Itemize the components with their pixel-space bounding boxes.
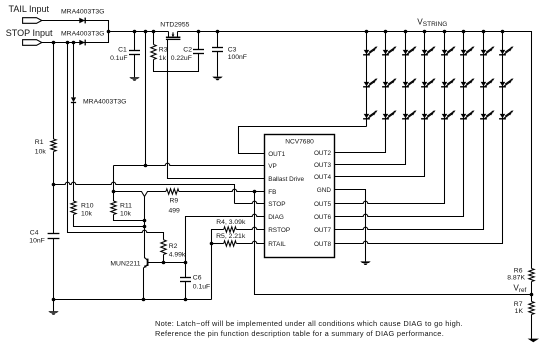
diode D3 MRA4003T3G vertical on R10 branch [71,97,76,102]
wire LED column 6 to OUT6 pin [335,32,464,217]
wire LED column 4 to OUT4 pin [335,32,425,177]
resistor R7 1K [529,302,534,315]
svg-text:4.99k: 4.99k [169,251,186,258]
resistor R2 4.99k [161,240,166,255]
wire R11 bottom to collector node [114,215,145,221]
svg-text:0.1uF: 0.1uF [193,284,210,291]
svg-text:STOP Input: STOP Input [6,28,53,38]
svg-text:0.22uF: 0.22uF [171,55,192,62]
wire C1 to ground [134,55,136,78]
svg-text:MRA4003T3G: MRA4003T3G [83,98,126,105]
wire rail tap down to VP pin line [145,32,147,166]
svg-text:NCV7680: NCV7680 [285,139,314,146]
LED column 3 row 1 [402,46,416,54]
wire VP pin line from R11 top corner [114,163,265,165]
svg-text:R9: R9 [170,197,179,204]
ground symbol at IC GND pin [360,261,370,265]
resistor R11 10k [111,201,116,215]
svg-text:MUN2211: MUN2211 [110,261,140,268]
ground symbol at bottom-left rail [48,311,58,315]
capacitor C3 100nF [212,48,223,52]
LED column 2 row 3 [382,110,396,118]
wire R4/R5 node down to ground rail [211,244,213,300]
wire STOP branch to R2 top [68,43,164,240]
LED column 6 row 3 [460,110,474,118]
wire R11 vertical below VP corner [113,166,115,202]
wire R7 bottom to down arrow [531,315,533,339]
LED column 6 row 1 [460,46,474,54]
svg-text:VP: VP [268,163,277,170]
svg-text:OUT2: OUT2 [314,150,331,157]
wire LED column 3 to OUT3 pin [335,32,406,165]
wire R3 bottom / C2 bottom / gate junction line [154,54,199,72]
ground symbol at C3 [212,77,222,81]
svg-text:100nF: 100nF [228,54,247,61]
svg-text:OUT6: OUT6 [314,214,331,221]
wire collector node vertical from V-junction to Q1 [144,197,146,259]
wire RTAIL right lead to pin [236,241,264,243]
transistor Q1 MUN2211 NPN [144,258,148,300]
LED column 4 row 3 [421,110,435,118]
wire ground stub below rail left end [53,300,55,312]
svg-text:Ballast Drive: Ballast Drive [268,176,304,183]
wire C3 branch from rail [217,32,219,48]
wire LED column 1 [366,32,368,127]
wire STOP branch down through R1 to C4 [53,43,55,140]
LED column 7 row 3 [480,110,494,118]
wire ground rail [54,299,212,301]
LED column 5 row 1 [441,46,455,54]
capacitor C1 0.1uF [129,51,140,55]
svg-text:10k: 10k [120,211,132,218]
wire RSTOP right lead to pin [236,227,264,229]
wire R2 bottom to base node [163,255,165,263]
resistor R10 10k [71,201,76,215]
svg-text:R1: R1 [35,139,44,146]
svg-text:MRA4003T3G: MRA4003T3G [61,30,104,37]
wire R11 tap to FB summing V-junction [114,192,166,197]
svg-text:STOP: STOP [268,201,285,208]
wire LED column 8 to OUT8 pin [335,32,503,244]
svg-text:TAIL Input: TAIL Input [9,4,50,14]
svg-text:R2: R2 [169,243,178,250]
wire RTAIL left lead [212,243,224,245]
LED column 6 row 2 [460,78,474,86]
LED column 1 row 1 [363,46,377,54]
resistor R5 2.21k [224,241,237,246]
wire C4 bottom to ground rail [53,239,55,300]
resistor R1 10k [51,139,56,152]
wire Q1 base line to R2 and C6 [148,262,185,264]
svg-text:OUT5: OUT5 [314,201,331,208]
svg-text:OUT3: OUT3 [314,162,331,169]
svg-text:R7: R7 [514,301,523,308]
wire STOP branch through diode D3 to R10 [73,43,75,98]
svg-text:C3: C3 [228,47,237,54]
capacitor C4 10nF [48,234,60,239]
wire STOP sense rail from R1/C4 tap to STOP pin [54,182,235,203]
svg-text:C4: C4 [30,230,39,237]
LED column 1 row 3 [363,110,377,118]
wire STOP pin lead [235,201,265,203]
diode D2 MRA4003T3G on STOP line [79,40,85,45]
resistor R4 3.09k [224,227,237,232]
svg-text:Reference the pin function des: Reference the pin function description t… [155,329,444,338]
wire C3 to ground [217,52,219,77]
LED column 8 row 1 [499,46,513,54]
svg-text:R10: R10 [81,202,94,209]
wire C1 branch from rail [134,32,136,51]
svg-text:10k: 10k [81,211,93,218]
LED column 3 row 3 [402,110,416,118]
wire Vref node to R7 [531,295,533,302]
svg-text:10nF: 10nF [29,238,45,245]
wire R3 branch from rail [153,32,155,45]
LED column 7 row 1 [480,46,494,54]
LED column 8 row 3 [499,110,513,118]
wire R9 right lead to FB pin [179,189,265,191]
svg-text:FB: FB [268,189,276,196]
svg-text:0.1uF: 0.1uF [110,55,127,62]
wire main VP rail from diode-OR to Q NTD2955 [109,31,169,33]
transistor Q2 NTD2955 P-MOSFET [166,32,181,40]
svg-text:R5, 2.21k: R5, 2.21k [216,233,246,240]
svg-text:RTAIL: RTAIL [268,241,286,248]
svg-text:MRA4003T3G: MRA4003T3G [61,9,104,16]
LED column 5 row 3 [441,110,455,118]
svg-text:C6: C6 [193,275,202,282]
wire R10 bottom to collector node [74,215,145,227]
svg-text:C1: C1 [118,46,127,53]
input tag TAIL [23,18,42,24]
wire C2 branch from rail [198,32,200,50]
svg-text:Note: Latch−off will be implem: Note: Latch−off will be implemented unde… [155,319,463,328]
svg-text:NTD2955: NTD2955 [160,22,189,29]
LED column 3 row 2 [402,78,416,86]
LED column 5 row 2 [441,78,455,86]
svg-text:1K: 1K [515,308,524,315]
LED column 4 row 2 [421,78,435,86]
wire main VP rail from Q NTD2955 to right edge down to R6 [178,32,532,269]
svg-text:DIAG: DIAG [268,214,284,221]
svg-text:OUT8: OUT8 [314,241,331,248]
LED column 2 row 1 [382,46,396,54]
svg-text:OUT7: OUT7 [314,227,331,234]
capacitor C6 0.1uF [180,278,191,282]
wire STOP input line [42,32,109,43]
resistor R6 8.87K [529,269,534,282]
diode D1 MRA4003T3G on TAIL line [79,18,85,23]
input tag STOP [23,40,42,46]
wire TAIL input line [42,21,109,32]
LED column 8 row 2 [499,78,513,86]
wire FB node down and across to Vref node [255,192,532,295]
svg-text:499: 499 [169,207,181,214]
resistor R3 1k [151,45,156,60]
wire LED column 7 to OUT7 pin [335,32,484,230]
svg-text:C2: C2 [183,47,192,54]
wire LED column 2 to OUT2 pin [335,32,386,153]
wire R6 bottom to Vref node [531,282,533,295]
wire DIAG pin line down to C6 top node [186,214,265,262]
svg-text:10k: 10k [35,148,47,155]
wire GND pin to ground [335,190,366,262]
ground symbol at C1 [129,77,139,81]
wire C6 vertical [185,263,187,278]
LED column 2 row 2 [382,78,396,86]
svg-text:OUT1: OUT1 [268,151,285,158]
svg-text:R11: R11 [120,202,132,209]
svg-text:R3: R3 [159,46,168,53]
svg-text:OUT4: OUT4 [314,174,331,181]
LED column 7 row 2 [480,78,494,86]
resistor R9 499 [166,189,179,194]
wire LED column 5 to OUT5 pin [335,32,445,204]
svg-text:GND: GND [317,187,332,194]
wire gate of NTD2955 down to Ballast Drive pin [168,40,265,179]
wire RSTOP left lead and corner down to RTAIL node [212,230,224,244]
svg-text:RSTOP: RSTOP [268,227,290,234]
wire OUT1 route above IC to LED column 1 [239,127,367,154]
LED column 4 row 1 [421,46,435,54]
supply return down arrow below R7 [528,339,539,343]
LED column 1 row 2 [363,78,377,86]
svg-text:1k: 1k [159,55,167,62]
svg-text:R4, 3.09k: R4, 3.09k [216,219,246,226]
IC U1 NCV7680 body [265,135,335,258]
svg-text:8.87K: 8.87K [507,274,525,281]
capacitor C2 0.22uF [193,50,204,54]
